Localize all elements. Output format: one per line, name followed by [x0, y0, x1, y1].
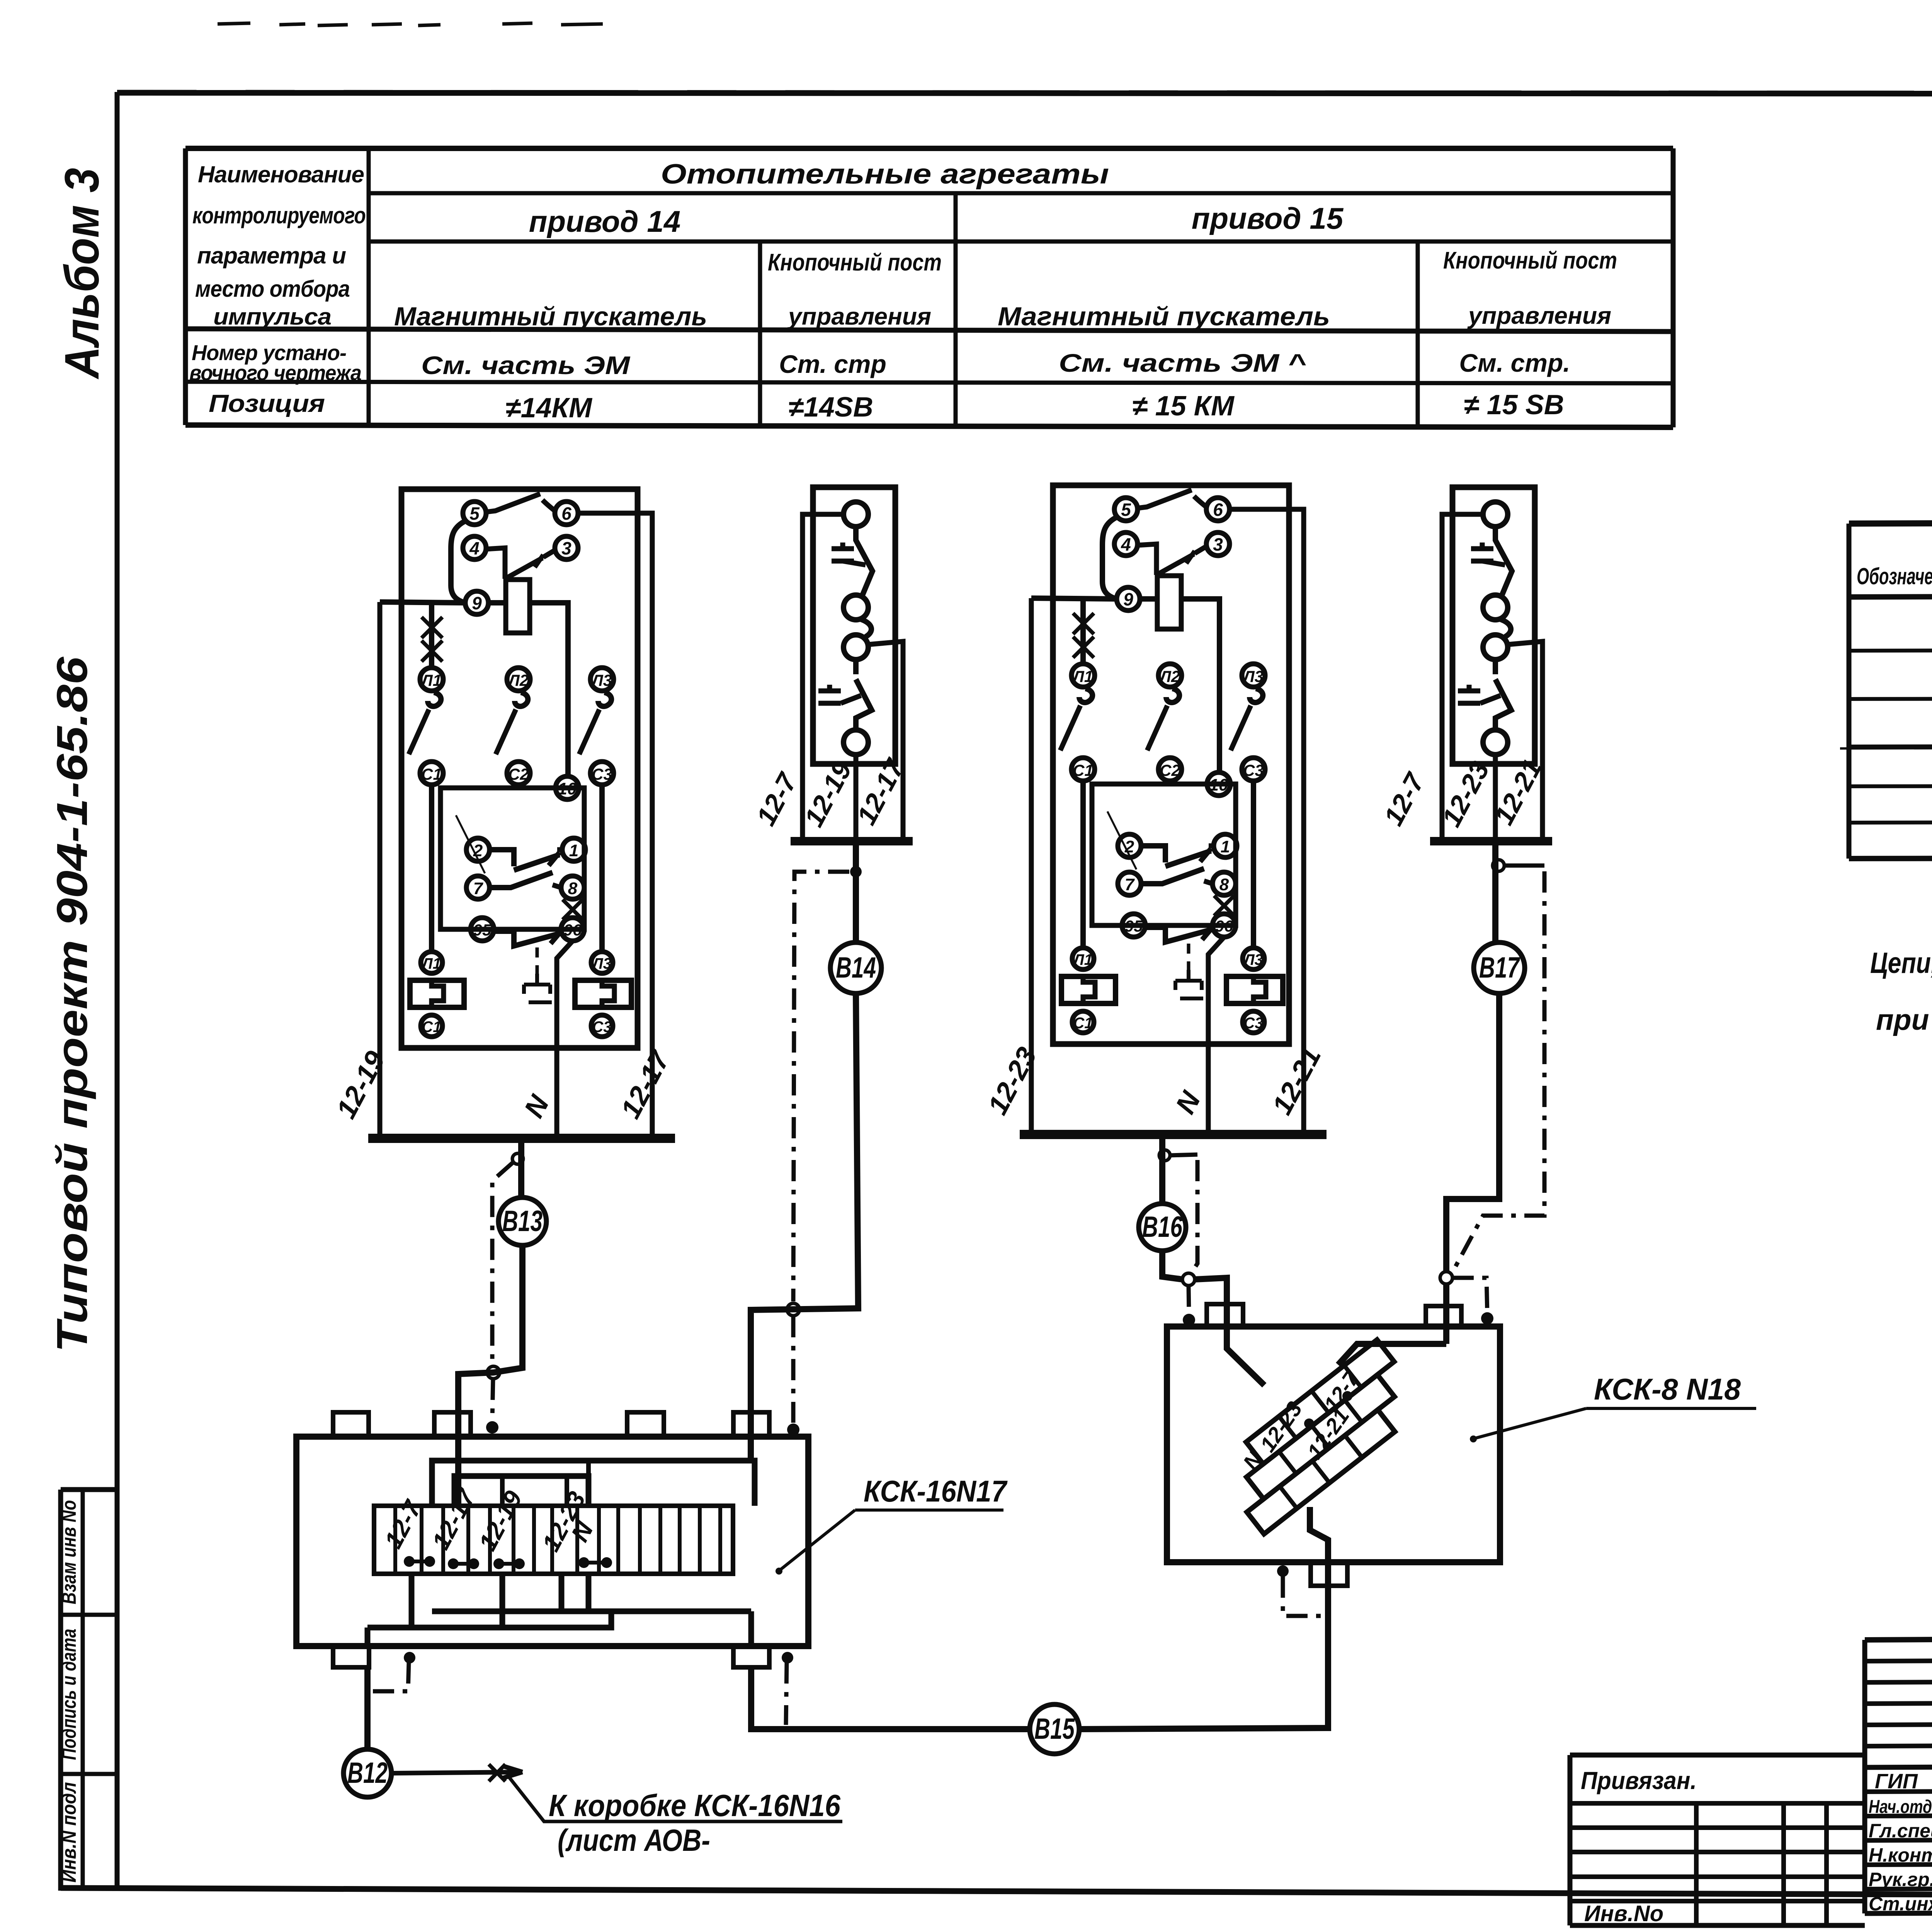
wire from left lug to tilted strip: [1227, 1345, 1264, 1385]
tilted terminal strip in KCK-8: [1213, 1340, 1429, 1534]
svg-text:Альбом 3: Альбом 3: [55, 168, 109, 380]
svg-text:Позиция: Позиция: [209, 389, 325, 417]
svg-text:В16: В16: [1142, 1211, 1183, 1243]
svg-text:В12: В12: [347, 1757, 388, 1789]
svg-text:Кнопочный пост: Кнопочный пост: [1443, 247, 1617, 274]
stub from ring to demount branch: [1504, 864, 1544, 868]
bottom-left frame strip: [61, 1490, 118, 1891]
strip labels: [58, 1500, 80, 1883]
cable circle B16: [1139, 1204, 1186, 1251]
svg-text:См. стр.: См. стр.: [1459, 349, 1570, 377]
svg-text:См. часть ЭМ ^: См. часть ЭМ ^: [1059, 349, 1306, 377]
strip terminal labels: [379, 1484, 599, 1556]
strip cell dividers: [395, 1506, 720, 1574]
cable B14 wire from post 14SB: [853, 841, 859, 942]
wire B17 to box KCK-8: [1446, 993, 1499, 1272]
box KCK-16 bottom lugs: [333, 1646, 369, 1667]
svg-text:вочного чертежа: вочного чертежа: [189, 361, 361, 385]
svg-text:В17: В17: [1479, 951, 1520, 984]
inner cover lower: [454, 1476, 588, 1506]
signature names: [1869, 1769, 1932, 1915]
wire labels 12-19 N 12-17: [330, 1045, 676, 1124]
demounted dash-dot branch of B17: [1452, 871, 1544, 1274]
junction ring under post 15SB: [1493, 860, 1504, 871]
box KCK-8 bottom lug: [1311, 1562, 1347, 1586]
title block: [1570, 1631, 1932, 1925]
svg-text:привод 15: привод 15: [1192, 201, 1344, 235]
terminal jumper links: [409, 1561, 607, 1564]
cable circle B13: [498, 1197, 546, 1245]
svg-text:Нач.отд.: Нач.отд.: [1869, 1797, 1932, 1817]
junction ring on B14 branch: [787, 1303, 799, 1316]
title block texts: [1581, 1651, 1932, 1926]
junction dot under post 14SB: [850, 866, 862, 878]
cable circle B17: [1474, 942, 1525, 993]
cable B12 wire from box KCK-16: [364, 1667, 371, 1749]
post labels 12-7 12-23 12-21: [1378, 754, 1548, 832]
inner cover upper: [432, 1461, 755, 1506]
demounted cable dash-dot along B13: [492, 1162, 513, 1366]
wire from right lug to tilted strip: [1338, 1344, 1446, 1365]
wire B16 to box KCK-8: [1162, 1251, 1182, 1279]
svg-text:Ст. стр: Ст. стр: [779, 350, 886, 378]
terminal dot of demounted cable: [1183, 1314, 1195, 1326]
cable circle B15: [1030, 1704, 1079, 1754]
post labels 12-7 12-19 12-17: [750, 753, 910, 832]
cable B15 wire right segment: [1079, 1586, 1328, 1729]
push-button post 15SB: [1430, 487, 1552, 841]
junction box KCK-16 N17: [296, 1437, 808, 1646]
magnetic starter 15KM: [1020, 485, 1327, 1134]
svg-text:ГИП: ГИП: [1875, 1770, 1918, 1793]
wire into KCK-8 right lug: [1443, 1284, 1449, 1344]
svg-text:Рук.гр.: Рук.гр.: [1869, 1869, 1932, 1890]
svg-text:≠ 15 КМ: ≠ 15 КМ: [1132, 391, 1235, 422]
svg-text:≠14SB: ≠14SB: [788, 392, 873, 423]
internal wiring below strip: [367, 1574, 751, 1646]
svg-text:Обозначен.: Обозначен.: [1857, 563, 1932, 589]
cable B13 wire from starter 14: [518, 1138, 524, 1197]
cable B15 wire from box KCK-16 to box KCK-8: [751, 1667, 1030, 1729]
wire from tilted strip to bottom lug: [1310, 1507, 1328, 1586]
arrow to box KCK-16 N16: [391, 1772, 522, 1773]
signature grid: [1865, 1638, 1932, 1640]
junction node at base of B13: [512, 1153, 523, 1164]
svg-text:Типовой проект 904-1-65.86: Типовой проект 904-1-65.86: [48, 656, 96, 1352]
svg-text:управления: управления: [787, 303, 931, 330]
svg-text:параметра и: параметра и: [197, 243, 346, 269]
svg-text:К коробке КСК-16N16: К коробке КСК-16N16: [549, 1788, 840, 1823]
dash-dot jog at KCK-8 bottom: [1277, 1565, 1289, 1577]
svg-text:место отбора: место отбора: [195, 276, 350, 302]
parts list table: [1840, 521, 1932, 859]
svg-text:См. часть ЭМ: См. часть ЭМ: [421, 351, 631, 379]
cable circle B12: [344, 1749, 391, 1797]
junction node under starter 15: [1159, 1150, 1170, 1161]
svg-text:Цепи, обозначенные: Цепи, обозначенные: [1870, 947, 1932, 980]
wire B14 to box KCK-16: [751, 993, 858, 1461]
tilted strip labels: [1238, 1366, 1364, 1474]
svg-text:привод 14: привод 14: [529, 204, 680, 238]
junction ring at B13 jog: [487, 1366, 500, 1379]
svg-text:В15: В15: [1034, 1713, 1075, 1745]
wire into KCK-8 left lug: [1195, 1278, 1227, 1345]
magnetic starter 14KM: [368, 489, 675, 1138]
demounted dash-dot branch of B14: [793, 872, 849, 1301]
svg-text:Привязан.: Привязан.: [1581, 1767, 1697, 1794]
svg-text:Магнитный пускатель: Магнитный пускатель: [394, 302, 707, 331]
svg-text:Инв.No: Инв.No: [1584, 1901, 1663, 1926]
header table data texts: [394, 159, 1617, 423]
svg-text:при монтаже: при монтаже: [1876, 1003, 1932, 1036]
junction ring on B17 drop: [1440, 1272, 1452, 1284]
dash-dot tail to box edge: [1189, 1286, 1189, 1314]
push-button post 14SB: [791, 487, 913, 841]
demount dash-dot at B12: [404, 1652, 415, 1663]
demount dash-dot at B15 left: [782, 1652, 793, 1663]
svg-text:Магнитный пускатель: Магнитный пускатель: [998, 302, 1330, 331]
svg-text:В14: В14: [836, 951, 876, 984]
svg-text:Отопительные агрегаты: Отопительные агрегаты: [661, 159, 1109, 190]
svg-text:≠ 15 SB: ≠ 15 SB: [1464, 389, 1564, 420]
svg-text:Наименование: Наименование: [198, 162, 364, 187]
svg-text:управления: управления: [1467, 303, 1611, 329]
svg-text:В13: В13: [502, 1205, 543, 1238]
terminal strip KCK-16: [374, 1506, 733, 1574]
svg-text:Инв.N подл: Инв.N подл: [58, 1782, 80, 1883]
box KCK-16 top lugs: [333, 1412, 369, 1437]
svg-text:импульса: импульса: [213, 304, 331, 330]
header table stub texts: [189, 162, 366, 417]
junction ring below B16: [1182, 1273, 1195, 1286]
cable B17 wire from post 15SB: [1492, 841, 1498, 942]
note: circuits marked xx to be dismantled: [1870, 944, 1932, 1036]
internal wires above strip: [502, 1461, 588, 1506]
pencil dashes above frame: [218, 23, 603, 26]
dash-dot branch down: [1191, 1160, 1197, 1274]
box KCK-8 top lugs: [1207, 1304, 1243, 1327]
leader to label: [509, 1777, 842, 1821]
privyazan table: [1570, 1753, 1865, 1758]
svg-text:Ст.инж.: Ст.инж.: [1869, 1893, 1932, 1915]
wire labels 12-23 N 12-21: [982, 1042, 1327, 1119]
svg-text:(лист АОВ-: (лист АОВ-: [558, 1823, 710, 1857]
terminal dot of demounted cable: [787, 1423, 799, 1436]
dash-dot tail to box edge: [492, 1379, 493, 1420]
svg-text:≠14КМ: ≠14КМ: [505, 393, 593, 423]
cable circle B14: [830, 942, 881, 993]
header table: monitored parameters: [185, 148, 1673, 427]
parts table texts: [1857, 543, 1932, 783]
dash-dot from ring to box edge: [1452, 1278, 1487, 1312]
wire B13 to box KCK-16: [458, 1245, 522, 1506]
svg-text:Взам инв No: Взам инв No: [58, 1500, 80, 1604]
cable B16 wire from starter 15: [1159, 1134, 1165, 1204]
svg-text:Подпись и дата: Подпись и дата: [58, 1629, 80, 1760]
dash-dot tail to box edge: [791, 1316, 796, 1423]
stub from node to demount branch: [1170, 1155, 1197, 1155]
svg-text:контролируемого: контролируемого: [192, 202, 366, 228]
svg-text:КСК-16N17: КСК-16N17: [864, 1474, 1008, 1508]
svg-text:Гл.спец: Гл.спец: [1869, 1820, 1932, 1842]
svg-text:Н.контр.: Н.контр.: [1869, 1844, 1932, 1866]
svg-text:КСК-8 N18: КСК-8 N18: [1594, 1372, 1741, 1406]
terminal dot of demounted cable: [1481, 1312, 1493, 1325]
svg-text:Кнопочный пост: Кнопочный пост: [768, 249, 942, 276]
junction box KCK-8 N18: [1167, 1327, 1500, 1562]
terminal dot of demounted cable: [486, 1421, 498, 1434]
